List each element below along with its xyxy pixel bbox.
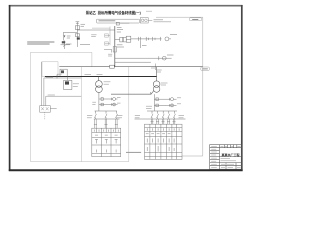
- svg-text:投标所需电气设备材线图(一): 投标所需电气设备材线图(一): [98, 10, 141, 15]
- svg-text:泵站乙: 泵站乙: [86, 10, 97, 15]
- svg-text:某某水厂工程: 某某水厂工程: [222, 152, 240, 157]
